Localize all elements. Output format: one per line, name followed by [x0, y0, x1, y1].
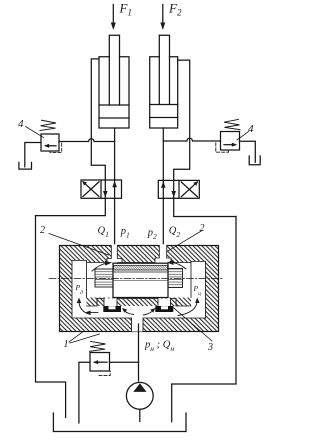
svg-text:4: 4 — [18, 118, 24, 130]
cylinder 2 barrel — [150, 57, 178, 128]
wire rod-side pipe cylinder 2 — [174, 60, 190, 180]
spring of relief valve 4 right — [224, 119, 240, 129]
flow arrow bottom left — [122, 308, 134, 315]
label Q1 — [98, 226, 109, 240]
svg-text:1: 1 — [64, 339, 69, 350]
label Pc right gallery — [193, 284, 202, 297]
relief valve 3 bottom — [90, 353, 110, 372]
wire right frame down to tank — [172, 217, 236, 422]
label p2 — [147, 228, 157, 242]
tank symbol right — [249, 156, 260, 165]
svg-text:Q2: Q2 — [169, 226, 181, 240]
cylinder 1 rod — [109, 35, 119, 105]
cylinder 1 piston — [99, 105, 129, 118]
wire left valve tank port to frame — [36, 198, 106, 215]
flow divider block body (hatched) — [60, 246, 219, 332]
wire pump to block — [138, 324, 140, 381]
svg-text:Q1: Q1 — [98, 226, 109, 240]
relief valve 4 right — [221, 132, 240, 151]
wire piston-side pipe cylinder 2 — [162, 128, 164, 180]
flow arrow bottom right — [144, 308, 156, 315]
flow arrows in right valve left square — [161, 180, 176, 198]
wire right valve tank port to frame — [174, 198, 236, 216]
label Q2 — [169, 226, 181, 240]
main tank — [53, 413, 186, 432]
pilot line left relief valve (dashed) — [50, 143, 62, 152]
flow arrows in left valve right square — [103, 180, 117, 198]
svg-text:F1: F1 — [119, 1, 132, 18]
flow arrow top left port — [92, 261, 112, 271]
svg-text:p2: p2 — [147, 228, 157, 242]
flow arrow top right port — [167, 260, 186, 269]
label 4 left — [18, 118, 24, 130]
directional valve left — [81, 180, 122, 198]
leader for label 3 — [172, 307, 212, 342]
wire rod-side pipe cylinder 1 — [91, 59, 105, 180]
centerline axis (dash-dot) — [49, 278, 223, 280]
leader for label 4 right — [237, 132, 249, 141]
tank symbol left — [19, 162, 32, 169]
svg-text:pн ; Qн: pн ; Qн — [144, 340, 174, 354]
wire supply line 1 valve to block — [114, 198, 116, 259]
svg-text:3: 3 — [207, 342, 213, 353]
label F2 — [168, 1, 182, 18]
relief valve 4 left — [41, 134, 59, 151]
cylinder 2 rod — [159, 35, 169, 104]
orifice block left (black) — [103, 306, 121, 312]
crossed arrows X in right valve — [181, 181, 198, 197]
svg-text:F2: F2 — [168, 1, 182, 18]
pump — [126, 382, 153, 409]
wire pump suction — [139, 409, 141, 421]
wire piston-side pipe cylinder 1 — [114, 128, 116, 180]
cylinder 1 barrel — [99, 57, 129, 128]
flow arrow right gallery — [178, 298, 200, 316]
svg-text:4: 4 — [248, 123, 254, 135]
svg-text:2: 2 — [40, 225, 45, 236]
block channel outlines — [72, 246, 206, 332]
block internal channels (white cutouts) — [72, 244, 206, 331]
label 1 — [64, 339, 69, 350]
wire relief valve left to tank — [25, 143, 41, 167]
label 4 right — [248, 123, 254, 135]
crossed arrows X in left valve — [82, 181, 99, 197]
leaders for label 1 — [69, 332, 100, 343]
svg-text:2: 2 — [200, 223, 205, 234]
flow arrow into left gallery foot — [86, 311, 99, 315]
wire relief line right (with hop) — [163, 138, 220, 141]
label p1 — [120, 226, 130, 240]
force arrow F2 — [160, 5, 165, 31]
label 2 left — [40, 225, 45, 236]
label F1 — [119, 1, 132, 18]
orifice block right (black) — [155, 306, 173, 312]
label pn Qn — [144, 340, 174, 354]
spool left end cap — [95, 269, 113, 287]
pilot line right relief valve (dashed) — [216, 143, 229, 152]
flow arrow left gallery — [77, 298, 91, 315]
leader for label 2 left — [49, 234, 109, 256]
svg-text:p1: p1 — [120, 226, 130, 240]
wire bottom relief valve drain to tank — [79, 362, 90, 423]
wire left frame down to tank — [36, 216, 66, 418]
spring of bottom relief valve — [90, 341, 106, 351]
cylinder 2 piston — [150, 105, 178, 118]
leader for label 4 left — [26, 127, 44, 138]
wire bottom relief valve outlet to pump line — [110, 361, 139, 363]
directional valve right — [158, 180, 199, 198]
wire relief valve right to tank — [240, 141, 256, 162]
leader for label 2 right — [168, 231, 202, 252]
label 3 — [207, 342, 213, 353]
pilot line bottom relief valve (dashed) — [99, 371, 110, 375]
label 2 right — [200, 223, 205, 234]
spring of relief valve 4 left — [40, 120, 56, 130]
force arrow F1 — [111, 5, 116, 31]
wire relief line left (with hop) — [59, 139, 115, 142]
label Pd left gallery — [75, 283, 84, 296]
wire supply line 2 valve to block — [162, 198, 164, 259]
spool right end cap — [168, 269, 183, 288]
spool body — [113, 263, 168, 297]
